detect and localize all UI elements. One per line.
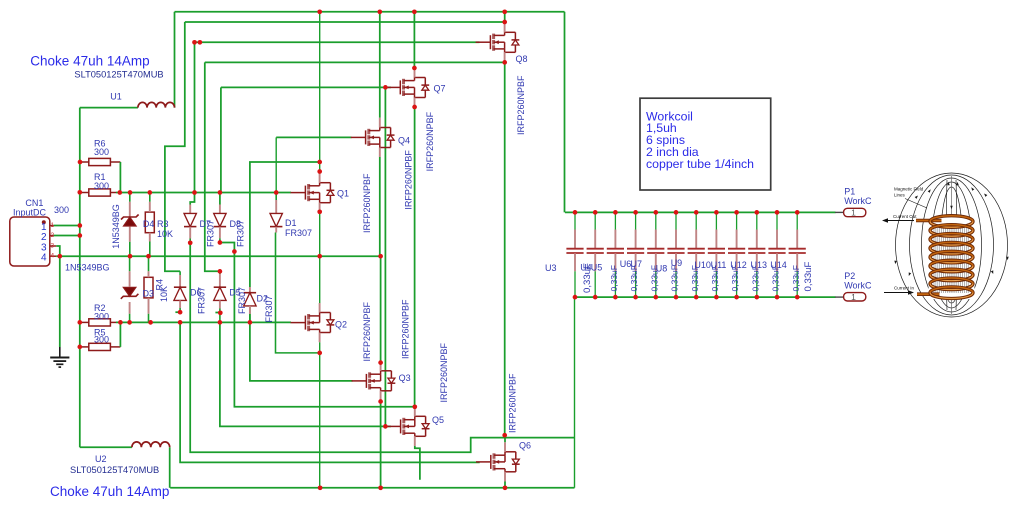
svg-text:Q5: Q5: [432, 415, 444, 425]
svg-text:300: 300: [94, 335, 109, 345]
svg-text:FR307: FR307: [264, 295, 274, 322]
svg-text:FR307: FR307: [236, 220, 246, 247]
svg-text:0,33uF: 0,33uF: [690, 265, 700, 291]
svg-text:300: 300: [94, 312, 109, 322]
svg-text:Magnetic Field: Magnetic Field: [894, 187, 924, 192]
svg-text:WorkC: WorkC: [844, 196, 872, 206]
svg-text:IRFP260NPBF: IRFP260NPBF: [362, 301, 372, 361]
svg-text:Q8: Q8: [516, 54, 528, 64]
svg-text:1: 1: [851, 208, 856, 218]
svg-text:FR307: FR307: [237, 287, 247, 314]
svg-text:300: 300: [94, 147, 109, 157]
svg-text:CN1: CN1: [25, 198, 43, 208]
svg-text:1: 1: [51, 222, 55, 229]
svg-text:Q7: Q7: [434, 84, 446, 94]
svg-text:0,33uF: 0,33uF: [750, 265, 760, 291]
svg-text:1N5349BG: 1N5349BG: [111, 204, 121, 249]
svg-text:Q4: Q4: [398, 136, 410, 146]
svg-text:copper tube 1/4inch: copper tube 1/4inch: [646, 157, 754, 171]
svg-text:SLT050125T470MUB: SLT050125T470MUB: [74, 69, 163, 79]
svg-text:D4: D4: [143, 219, 155, 229]
svg-text:Choke 47uh 14Amp: Choke 47uh 14Amp: [30, 54, 149, 69]
svg-text:FR307: FR307: [197, 287, 207, 314]
svg-text:2: 2: [51, 232, 55, 239]
svg-text:R3: R3: [157, 219, 169, 229]
svg-text:InputDC: InputDC: [13, 208, 47, 218]
svg-text:0,33uF: 0,33uF: [582, 263, 593, 293]
svg-text:U1: U1: [110, 92, 122, 102]
svg-text:IRFP260NPBF: IRFP260NPBF: [401, 299, 411, 359]
svg-text:FR307: FR307: [285, 228, 312, 238]
svg-text:0,33uF: 0,33uF: [629, 265, 639, 291]
svg-text:0,33uF: 0,33uF: [791, 265, 801, 291]
svg-text:SLT050125T470MUB: SLT050125T470MUB: [70, 465, 159, 475]
svg-text:2: 2: [41, 232, 47, 243]
svg-text:0,33uF: 0,33uF: [649, 265, 659, 291]
svg-text:D3: D3: [143, 288, 155, 298]
svg-text:FR307: FR307: [206, 220, 216, 247]
svg-text:Choke 47uh 14Amp: Choke 47uh 14Amp: [50, 484, 169, 499]
svg-text:WorkC: WorkC: [844, 280, 872, 290]
svg-text:IRFP260NPBF: IRFP260NPBF: [362, 173, 372, 233]
svg-text:Q3: Q3: [399, 373, 411, 383]
svg-text:D1: D1: [285, 218, 297, 228]
svg-text:300: 300: [54, 205, 69, 215]
svg-text:10K: 10K: [159, 286, 169, 302]
svg-text:0,33uF: 0,33uF: [730, 265, 740, 291]
svg-text:IRFP260NPBF: IRFP260NPBF: [508, 373, 518, 433]
svg-text:1N5349BG: 1N5349BG: [65, 263, 110, 273]
svg-text:Q1: Q1: [337, 189, 349, 199]
svg-text:IRFP260NPBF: IRFP260NPBF: [403, 150, 413, 210]
svg-text:0,33uF: 0,33uF: [609, 265, 619, 291]
svg-text:1: 1: [851, 292, 856, 302]
svg-text:0,33uF: 0,33uF: [803, 261, 814, 291]
svg-text:0,33uF: 0,33uF: [710, 265, 720, 291]
svg-text:U2: U2: [95, 454, 107, 464]
svg-text:10K: 10K: [157, 229, 173, 239]
svg-text:Q6: Q6: [519, 441, 531, 451]
svg-text:4: 4: [51, 253, 55, 260]
svg-text:300: 300: [94, 181, 109, 191]
svg-text:0,33uF: 0,33uF: [670, 265, 680, 291]
svg-text:0,33uF: 0,33uF: [771, 265, 781, 291]
svg-text:4: 4: [41, 253, 47, 264]
svg-text:IRFP260NPBF: IRFP260NPBF: [516, 75, 526, 135]
svg-text:Current Out: Current Out: [893, 214, 917, 219]
svg-text:P2: P2: [844, 271, 855, 281]
svg-text:Current In: Current In: [894, 286, 915, 291]
svg-text:IRFP260NPBF: IRFP260NPBF: [439, 342, 449, 402]
svg-text:Lines: Lines: [894, 193, 906, 198]
svg-text:IRFP260NPBF: IRFP260NPBF: [425, 111, 435, 171]
svg-text:P1: P1: [844, 187, 855, 197]
svg-text:3: 3: [51, 242, 55, 249]
svg-text:Q2: Q2: [335, 320, 347, 330]
svg-text:U3: U3: [545, 263, 557, 273]
